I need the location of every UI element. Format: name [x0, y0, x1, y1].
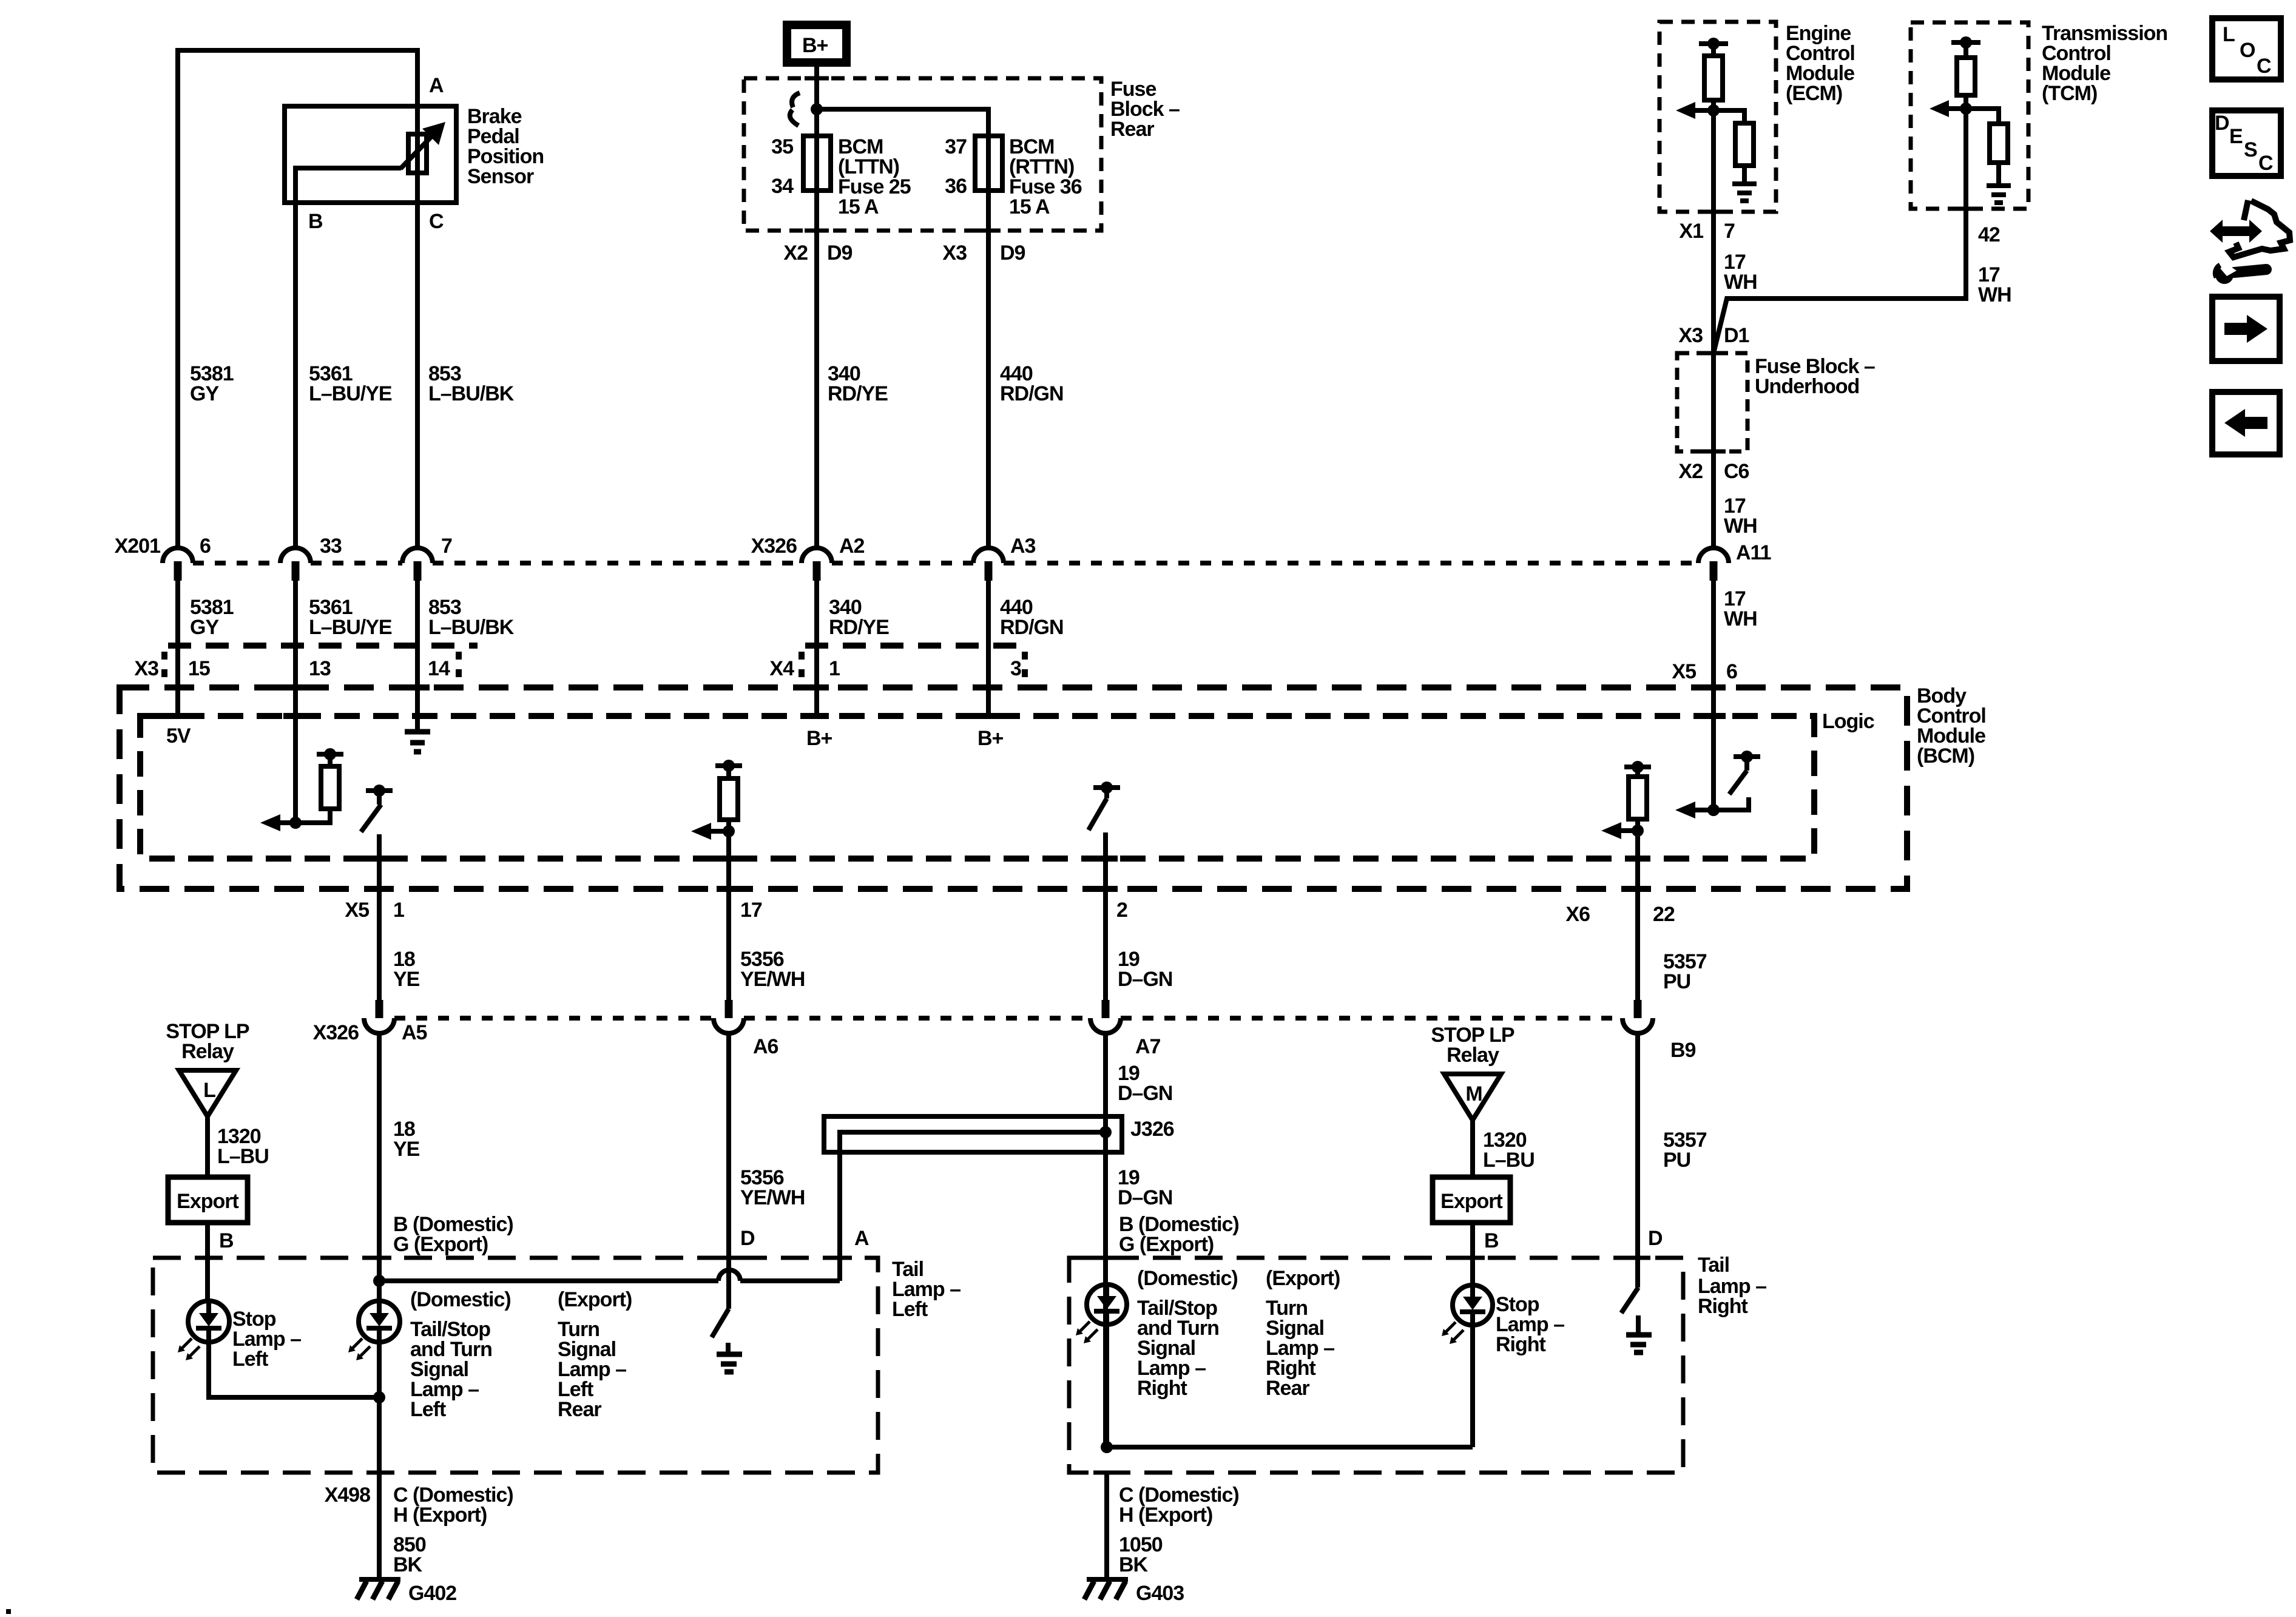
svg-text:34: 34: [771, 175, 794, 198]
fuse 25 body: [803, 136, 831, 191]
icon forward arrow box: [2212, 297, 2280, 361]
svg-text:42: 42: [1978, 223, 2000, 246]
svg-text:13: 13: [309, 657, 331, 680]
stop lamp left bottom wire: [209, 1342, 379, 1397]
svg-text:D: D: [2215, 112, 2229, 135]
svg-text:GY: GY: [190, 616, 219, 639]
svg-text:B: B: [219, 1229, 234, 1252]
BCM left driver switch: [361, 791, 381, 832]
wire through fuse 36: [986, 136, 991, 191]
svg-text:G (Export): G (Export): [393, 1233, 488, 1256]
BCM right input arrow: [1620, 828, 1638, 833]
svg-text:A6: A6: [753, 1035, 778, 1058]
tail stop lamp right LED arrows: [1078, 1322, 1098, 1341]
potentiometer wiper wire (pin B): [295, 168, 401, 203]
svg-text:X4: X4: [769, 657, 794, 680]
BCM left pull-up resistor: [295, 754, 330, 823]
svg-text:X326: X326: [751, 535, 797, 558]
svg-text:6: 6: [200, 535, 211, 558]
export turn switch wire D right: [1621, 1288, 1638, 1313]
ticks wires crossing BCM top: [166, 684, 1726, 690]
connector pins below line: [178, 561, 1714, 581]
stop lamp left LED arrows: [180, 1338, 200, 1358]
svg-text:Right: Right: [1698, 1295, 1748, 1318]
wire 853 through sensor (pin C): [415, 106, 420, 203]
svg-text:O: O: [2240, 39, 2255, 62]
svg-text:D–GN: D–GN: [1118, 1082, 1172, 1105]
ticks wire through underhood box: [1701, 353, 1726, 451]
svg-text:D: D: [1648, 1227, 1663, 1250]
BCM mid pull-up resistor top bar: [715, 763, 742, 768]
svg-text:PU: PU: [1663, 970, 1690, 993]
jumper J326 conductor: [840, 1132, 1106, 1281]
tail lamp right dashed box: [1069, 1258, 1683, 1473]
svg-text:B+: B+: [806, 727, 832, 750]
svg-text:15 A: 15 A: [1009, 195, 1050, 218]
stop lamp right return wire: [1107, 1445, 1473, 1450]
page mark dot: [6, 1609, 11, 1614]
fuse block rear dashed box: [744, 78, 1101, 231]
BCM right switch bottom contact: [1714, 797, 1749, 810]
TCM resistor R1: [1963, 42, 1968, 109]
connector pins above line: [379, 1000, 1638, 1018]
svg-text:36: 36: [945, 175, 967, 198]
icon LOC box: [2212, 18, 2281, 79]
svg-text:X201: X201: [115, 535, 160, 558]
wire 1320 L-BU right: [1470, 1120, 1475, 1177]
wire 440 RD/GN down: [986, 191, 991, 549]
export turn switch wire D: [712, 1309, 729, 1337]
svg-text:(TCM): (TCM): [2042, 82, 2097, 105]
svg-text:C: C: [2257, 55, 2271, 78]
svg-text:Export: Export: [177, 1190, 238, 1213]
svg-text:Rear: Rear: [558, 1398, 601, 1421]
svg-text:A2: A2: [839, 535, 865, 558]
tail stop turn lamp right bulb: [1087, 1284, 1127, 1325]
svg-text:L: L: [2223, 23, 2235, 46]
tail stop lamp left LED arrows: [351, 1338, 370, 1358]
TCM tick box bottom: [1954, 207, 1978, 211]
svg-text:(BCM): (BCM): [1917, 744, 1974, 768]
svg-text:D1: D1: [1724, 324, 1749, 347]
ECM resistor R1: [1711, 44, 1716, 110]
connector arc X201-33: [280, 548, 311, 563]
connector arc X326-A3: [973, 548, 1004, 563]
wire 340 RD/YE down: [814, 191, 819, 549]
svg-text:Underhood: Underhood: [1755, 375, 1859, 398]
TCM wire 17 WH out: [1714, 109, 1966, 353]
svg-text:(ECM): (ECM): [1786, 82, 1842, 105]
BCM left input arrow: [279, 820, 299, 825]
BCM right input arrow: [1694, 808, 1714, 812]
wire hop arc over D: [718, 1270, 740, 1281]
svg-text:A5: A5: [402, 1021, 427, 1044]
export turn ground left: [726, 1343, 731, 1353]
ticks wires crossing Logic bottom: [367, 856, 1650, 862]
svg-text:3: 3: [1010, 657, 1021, 680]
svg-text:YE/WH: YE/WH: [740, 968, 805, 991]
BCM mid driver switch top contact: [1093, 785, 1120, 790]
svg-text:X6: X6: [1565, 903, 1590, 926]
svg-text:X3: X3: [942, 241, 967, 265]
export box left: [168, 1177, 248, 1223]
svg-text:(Domestic): (Domestic): [410, 1288, 511, 1311]
wire 5381 GY from sensor pin A loop: [178, 50, 417, 548]
svg-text:C: C: [429, 210, 444, 233]
ticks wires crossing fuse block bottom: [805, 229, 1001, 233]
svg-text:Left: Left: [892, 1298, 928, 1321]
svg-text:6: 6: [1726, 660, 1737, 683]
tail stop lamp left diode: [370, 1313, 389, 1326]
fuse block underhood dashed box: [1677, 353, 1747, 451]
svg-text:X3: X3: [134, 657, 158, 680]
svg-text:2: 2: [1116, 899, 1127, 922]
BCM right pull-up resistor: [1635, 767, 1640, 831]
svg-text:33: 33: [320, 535, 342, 558]
svg-text:14: 14: [428, 657, 450, 680]
potentiometer arrowhead: [422, 122, 445, 145]
wire through fuse 25: [814, 136, 819, 191]
svg-text:15: 15: [188, 657, 210, 680]
TCM junction dot: [1960, 103, 1972, 115]
svg-text:Rear: Rear: [1266, 1377, 1309, 1400]
wire 18 YE below A5: [377, 1033, 382, 1302]
svg-text:A3: A3: [1010, 535, 1036, 558]
connector arc A11: [1698, 548, 1729, 563]
tail stop turn lamp left bulb: [359, 1301, 400, 1342]
svg-text:C6: C6: [1724, 460, 1749, 483]
ECM signal ground: [1742, 166, 1747, 182]
svg-text:B+: B+: [977, 727, 1004, 750]
svg-text:RD/GN: RD/GN: [1000, 616, 1064, 639]
svg-text:L–BU/BK: L–BU/BK: [428, 616, 515, 639]
wire 5357 below B9: [1635, 1033, 1640, 1288]
BCM right driver switch: [1729, 757, 1747, 794]
jumper junction dot: [1099, 1126, 1112, 1138]
svg-text:BK: BK: [1119, 1553, 1149, 1576]
BCM left pull-up resistor top bar: [317, 752, 343, 757]
svg-text:Right: Right: [1137, 1377, 1187, 1400]
transmission control module dashed box: [1911, 22, 2028, 209]
BCM mid input arrow: [710, 829, 729, 834]
stop lamp right diode: [1463, 1297, 1482, 1310]
svg-text:A7: A7: [1135, 1035, 1161, 1058]
svg-text:B9: B9: [1670, 1039, 1696, 1062]
export turn ground right: [1636, 1315, 1641, 1334]
svg-text:WH: WH: [1724, 607, 1757, 630]
svg-text:M: M: [1465, 1082, 1482, 1106]
wire 853 from pin C down: [415, 203, 420, 549]
TCM output arrow: [1947, 106, 1966, 111]
svg-text:X2: X2: [783, 241, 808, 265]
svg-text:YE/WH: YE/WH: [740, 1186, 805, 1209]
stop lamp right bulb: [1453, 1285, 1493, 1325]
BCM right pull-up resistor top bar: [1624, 765, 1651, 769]
icon back arrow box: [2212, 392, 2280, 454]
wire X498 down: [377, 1473, 382, 1578]
ticks wires crossing BCM bottom: [367, 886, 1650, 892]
BCM right junction dot: [1707, 804, 1720, 816]
svg-text:L–BU/YE: L–BU/YE: [309, 382, 392, 405]
icon hand with wrench: [2229, 200, 2290, 257]
connector X326 lower dashed line: [394, 1016, 1622, 1021]
BCM right driver switch top contact: [1734, 754, 1760, 759]
svg-text:Relay: Relay: [181, 1040, 234, 1063]
connector arc A6: [714, 1018, 744, 1033]
body control module dashed box: [120, 687, 1907, 889]
TCM internal top bar: [1951, 40, 1980, 45]
svg-text:YE: YE: [393, 968, 420, 991]
svg-text:Rear: Rear: [1110, 118, 1154, 141]
svg-text:GY: GY: [190, 382, 219, 405]
wires below connector row1: [175, 581, 180, 718]
svg-text:Relay: Relay: [1447, 1044, 1499, 1067]
wire 17 WH through underhood: [1711, 353, 1716, 549]
icon double arrow: [2210, 220, 2262, 243]
B+ power symbol box: [787, 25, 846, 62]
svg-text:WH: WH: [1724, 515, 1757, 538]
wire 5361 from pin B down: [293, 203, 298, 549]
BCM mid pull-up resistor: [726, 766, 731, 831]
service loop symbol: [790, 93, 800, 126]
svg-text:D–GN: D–GN: [1118, 968, 1172, 991]
svg-text:7: 7: [441, 535, 452, 558]
svg-text:1: 1: [393, 899, 404, 922]
connector X201/X326 dashed line: [193, 561, 1698, 565]
ECM wire 17 WH out: [1711, 110, 1716, 353]
tail lamp left dashed box: [153, 1258, 878, 1473]
wire 1050 down: [1104, 1473, 1109, 1578]
svg-text:D9: D9: [1000, 241, 1025, 265]
svg-text:7: 7: [1724, 220, 1735, 243]
svg-text:5V: 5V: [166, 724, 191, 748]
wire 19 D-GN below A7: [1103, 1033, 1108, 1447]
svg-text:X5: X5: [345, 899, 369, 922]
svg-text:X3: X3: [1678, 324, 1703, 347]
chassis ground G402: [359, 1577, 400, 1582]
wire 5381 GY lower: [175, 548, 180, 549]
BCM left output wire to X5-1: [377, 834, 382, 1000]
BCM mid driver switch: [1089, 788, 1107, 830]
svg-text:L: L: [203, 1079, 215, 1102]
connector arc B9: [1622, 1018, 1653, 1033]
svg-text:D: D: [740, 1227, 755, 1250]
svg-text:Sensor: Sensor: [467, 165, 534, 188]
ECM branch to R2: [1714, 110, 1744, 123]
connector arc X201-7: [402, 548, 433, 563]
BCM mid junction dot: [723, 825, 735, 837]
wire 5356 below A6: [726, 1033, 731, 1309]
wire pin B left: [205, 1223, 210, 1301]
svg-text:G (Export): G (Export): [1119, 1233, 1214, 1256]
svg-text:(Domestic): (Domestic): [1137, 1267, 1238, 1290]
BCM mid output wire to pin 17: [726, 831, 731, 1000]
svg-text:BK: BK: [393, 1553, 423, 1576]
svg-text:RD/YE: RD/YE: [829, 616, 889, 639]
BCM right output wire to X6-22: [1635, 831, 1640, 1000]
connector X4 bracket dots: [802, 652, 1025, 677]
svg-text:L–BU/YE: L–BU/YE: [309, 616, 392, 639]
svg-text:L–BU: L–BU: [1483, 1149, 1535, 1172]
svg-text:(Export): (Export): [558, 1288, 632, 1311]
svg-text:G402: G402: [408, 1582, 456, 1605]
svg-text:X2: X2: [1678, 460, 1703, 483]
BCM mid output wire to pin 2: [1103, 832, 1108, 1000]
svg-text:PU: PU: [1663, 1149, 1690, 1172]
connector arc X326-A2: [802, 548, 832, 563]
svg-text:17: 17: [740, 899, 762, 922]
BCM right junction dot on output: [1632, 825, 1644, 837]
icon DESC box: [2212, 110, 2281, 176]
svg-text:22: 22: [1653, 903, 1675, 926]
tick wire crossing fuse block top: [805, 76, 829, 81]
wire B+ feed down: [814, 67, 819, 136]
svg-text:Left: Left: [232, 1348, 268, 1371]
svg-text:X326: X326: [313, 1021, 359, 1044]
ECM junction dot: [1707, 104, 1720, 116]
connector arc A5: [364, 1018, 394, 1033]
stop lamp left bulb: [188, 1301, 229, 1342]
TCM signal ground: [1996, 163, 2001, 184]
svg-text:L–BU/BK: L–BU/BK: [428, 382, 515, 405]
connector X3 bracket dots: [164, 652, 459, 677]
svg-text:Tail: Tail: [1698, 1254, 1729, 1277]
svg-text:D9: D9: [827, 241, 853, 265]
export box right: [1433, 1177, 1510, 1223]
svg-text:A11: A11: [1736, 541, 1771, 564]
ticks wires crossing right box: [1093, 1258, 1650, 1473]
connector X3 dashed line: [168, 643, 478, 649]
stop lamp right LED arrows: [1444, 1322, 1464, 1342]
svg-text:RD/GN: RD/GN: [1000, 382, 1064, 405]
svg-text:X5: X5: [1672, 660, 1696, 683]
svg-text:C: C: [2258, 152, 2273, 175]
svg-text:Left: Left: [410, 1398, 446, 1421]
brake pedal position sensor box: [285, 106, 456, 203]
svg-text:E: E: [2229, 125, 2243, 148]
svg-text:WH: WH: [1724, 271, 1757, 294]
svg-text:Logic: Logic: [1822, 710, 1874, 733]
svg-text:RD/YE: RD/YE: [828, 382, 888, 405]
svg-text:B: B: [308, 210, 323, 233]
svg-text:YE: YE: [393, 1138, 420, 1161]
stop lamp left diode: [199, 1313, 218, 1326]
svg-text:(Export): (Export): [1266, 1267, 1340, 1290]
junction dot feed branch: [373, 1275, 385, 1287]
jumper J326 housing: [824, 1116, 1122, 1152]
ECM resistor R2: [1735, 123, 1754, 166]
svg-text:WH: WH: [1978, 283, 2011, 306]
svg-text:J326: J326: [1130, 1118, 1174, 1141]
svg-text:X498: X498: [325, 1484, 370, 1507]
svg-text:15 A: 15 A: [838, 195, 879, 218]
wire branch to fuse 36: [817, 109, 988, 136]
TCM resistor R2: [1990, 124, 2008, 163]
svg-text:B: B: [1484, 1229, 1499, 1252]
logic dashed box: [140, 716, 1814, 859]
ECM output arrow: [1693, 108, 1714, 113]
wire pin B right: [1470, 1223, 1475, 1285]
TCM branch to R2: [1966, 109, 1999, 124]
chassis ground G403: [1087, 1577, 1128, 1582]
tail stop lamp right diode: [1097, 1296, 1116, 1309]
TCM junction dot top: [1960, 36, 1972, 49]
svg-text:H (Export): H (Export): [1119, 1504, 1212, 1527]
svg-text:B+: B+: [802, 34, 828, 57]
svg-text:G403: G403: [1136, 1582, 1184, 1605]
junction dot right return: [1101, 1441, 1113, 1453]
BCM left junction dot: [289, 817, 302, 829]
ECM internal pull-up top bar: [1699, 41, 1728, 46]
svg-text:35: 35: [771, 135, 793, 158]
svg-text:Right: Right: [1496, 1333, 1546, 1356]
svg-text:D–GN: D–GN: [1118, 1186, 1172, 1209]
stop lp relay left triangle: [179, 1070, 236, 1116]
svg-text:H (Export): H (Export): [393, 1504, 487, 1527]
junction dot lamp return: [373, 1391, 385, 1403]
svg-text:37: 37: [945, 135, 967, 158]
svg-text:X1: X1: [1679, 220, 1703, 243]
connector arc A7: [1090, 1018, 1121, 1033]
ticks wires crossing left box: [195, 1258, 852, 1473]
potentiometer R body: [408, 134, 427, 173]
connector X4 dashed line: [805, 643, 1021, 649]
svg-text:A: A: [854, 1227, 869, 1250]
potentiometer arrow diagonal: [400, 135, 433, 169]
svg-text:1: 1: [829, 657, 840, 680]
BCM left driver switch top contact: [366, 788, 393, 793]
svg-text:S: S: [2244, 138, 2257, 161]
ECM junction dot top: [1707, 38, 1720, 50]
ticks wires crossing Logic top: [166, 713, 1726, 719]
connector arc X201-6: [163, 548, 193, 563]
svg-text:Export: Export: [1440, 1190, 1502, 1213]
junction dot B+ branch: [811, 103, 823, 115]
fuse 36 body: [975, 136, 1002, 191]
engine control module dashed box: [1660, 22, 1776, 212]
icon wrench: [2234, 269, 2266, 272]
stop lp relay right triangle: [1444, 1074, 1501, 1120]
ground for 853 inside BCM: [415, 728, 420, 730]
wire 1320 L-BU left: [205, 1116, 210, 1177]
branch wire to pin A with hop over D: [379, 1278, 840, 1283]
svg-text:A: A: [429, 74, 444, 97]
svg-text:L–BU: L–BU: [217, 1145, 269, 1168]
ECM tick box bottom: [1701, 210, 1726, 214]
